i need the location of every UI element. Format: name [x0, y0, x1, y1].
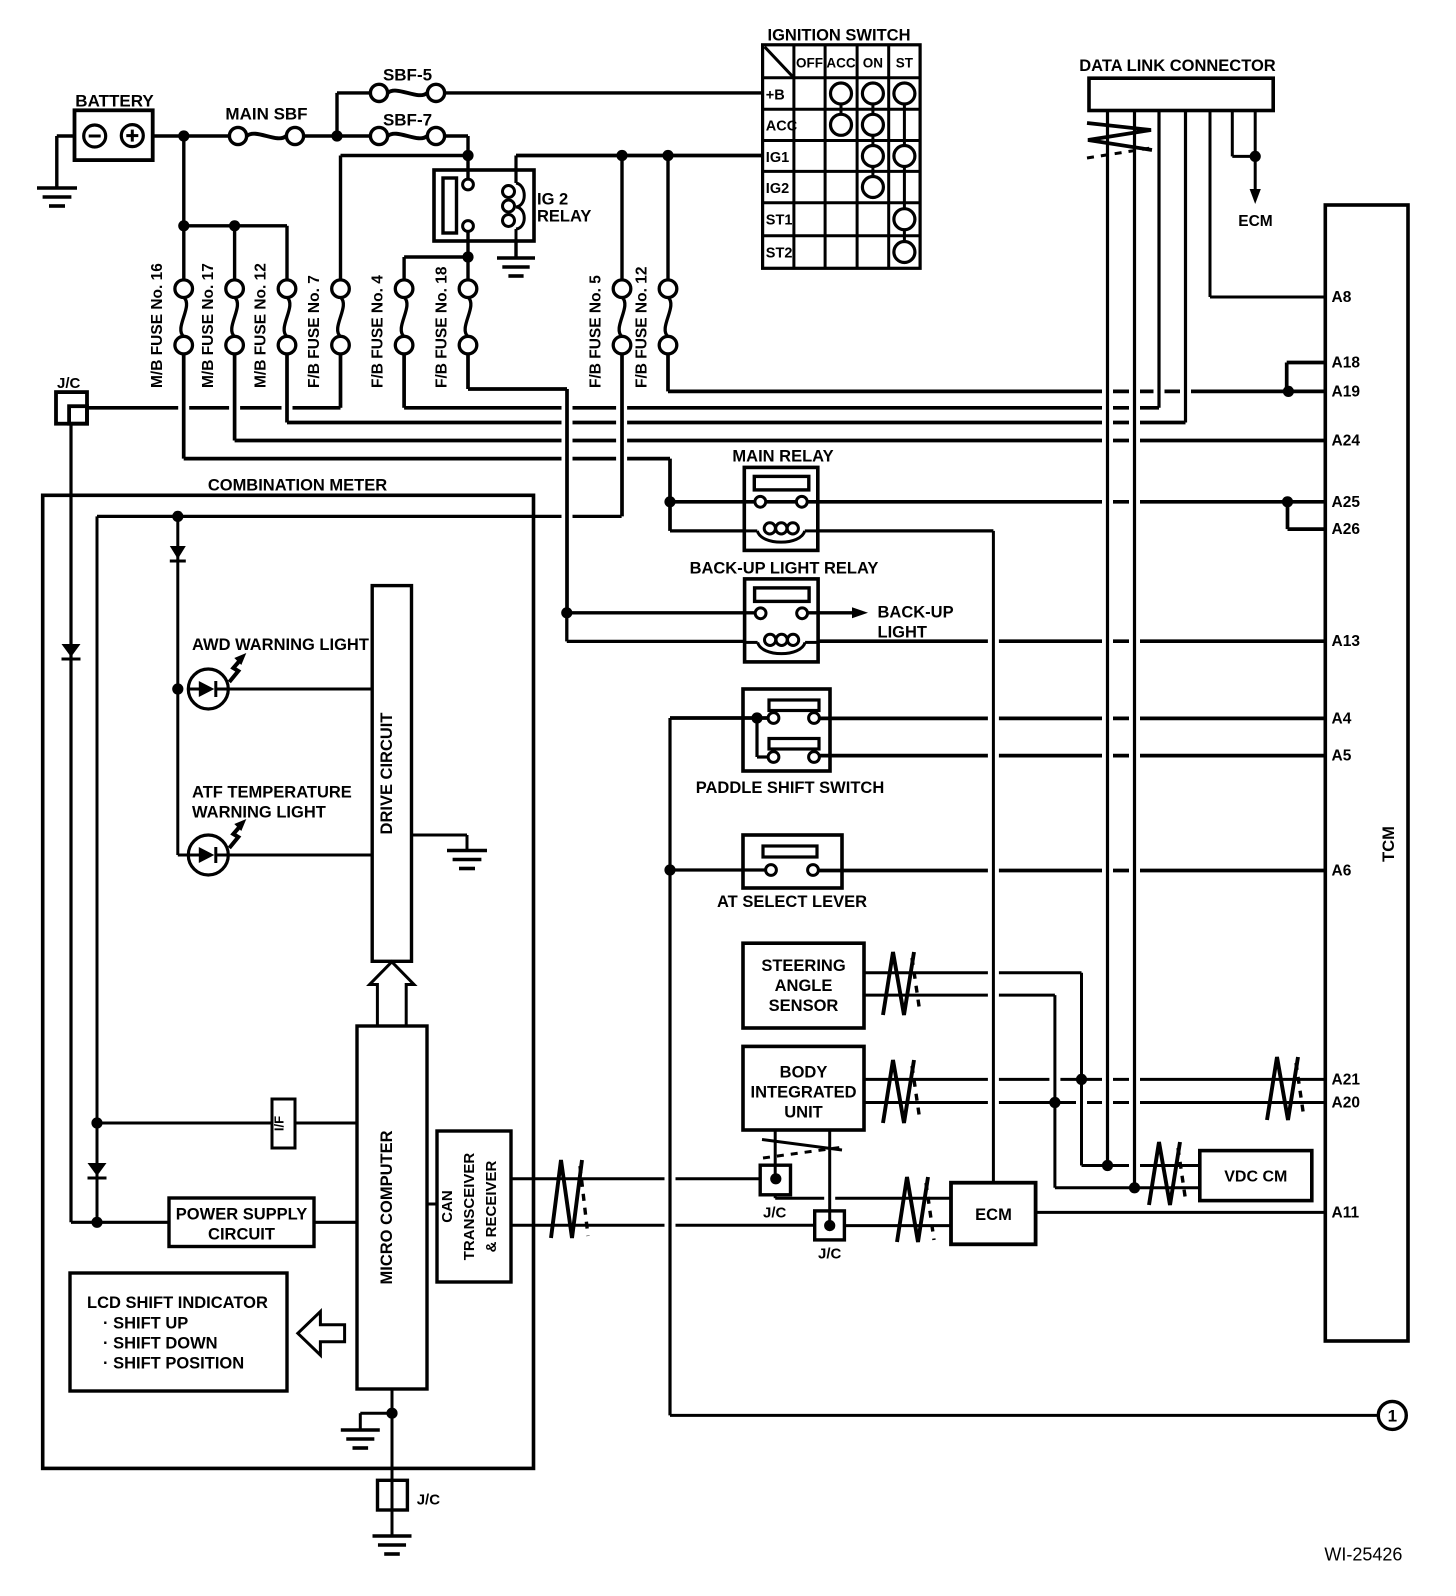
svg-text:& RECEIVER: & RECEIVER — [483, 1160, 500, 1252]
svg-text:LIGHT: LIGHT — [878, 624, 928, 642]
svg-text:A5: A5 — [1332, 748, 1352, 765]
svg-text:ACC: ACC — [826, 56, 855, 71]
svg-text:INTEGRATED: INTEGRATED — [750, 1084, 856, 1102]
svg-text:+B: +B — [766, 88, 785, 104]
svg-text:A11: A11 — [1332, 1204, 1360, 1221]
svg-text:ST2: ST2 — [766, 246, 793, 262]
svg-text:M/B FUSE No. 16: M/B FUSE No. 16 — [149, 263, 166, 388]
svg-text:F/B FUSE No. 5: F/B FUSE No. 5 — [588, 275, 605, 388]
svg-text:MAIN SBF: MAIN SBF — [225, 105, 307, 124]
svg-text:A6: A6 — [1332, 863, 1352, 880]
svg-text:TCM: TCM — [1380, 826, 1398, 862]
svg-text:A25: A25 — [1332, 494, 1361, 511]
svg-text:UNIT: UNIT — [784, 1104, 823, 1122]
svg-text:SBF-5: SBF-5 — [383, 66, 432, 85]
svg-text:RELAY: RELAY — [537, 208, 591, 226]
svg-text:ANGLE: ANGLE — [775, 977, 833, 995]
svg-text:ECM: ECM — [975, 1206, 1012, 1224]
svg-text:CIRCUIT: CIRCUIT — [208, 1226, 275, 1244]
svg-text:J/C: J/C — [763, 1205, 787, 1222]
svg-text:ON: ON — [863, 56, 883, 71]
svg-text:A18: A18 — [1332, 355, 1361, 372]
svg-text:A20: A20 — [1332, 1095, 1360, 1112]
svg-text:· SHIFT POSITION: · SHIFT POSITION — [103, 1355, 244, 1373]
svg-text:F/B FUSE No. 18: F/B FUSE No. 18 — [434, 266, 451, 388]
svg-text:ACC: ACC — [766, 119, 798, 135]
svg-text:IG2: IG2 — [766, 181, 789, 197]
svg-text:ECM: ECM — [1238, 213, 1272, 230]
svg-text:LCD SHIFT INDICATOR: LCD SHIFT INDICATOR — [87, 1294, 268, 1312]
svg-text:BODY: BODY — [780, 1064, 828, 1082]
svg-text:M/B FUSE No. 17: M/B FUSE No. 17 — [200, 263, 217, 388]
svg-text:VDC CM: VDC CM — [1224, 1168, 1287, 1185]
svg-text:CAN: CAN — [439, 1190, 456, 1223]
svg-text:IG1: IG1 — [766, 150, 789, 166]
svg-text:OFF: OFF — [796, 56, 823, 71]
svg-text:A8: A8 — [1332, 289, 1352, 306]
svg-text:TRANSCEIVER: TRANSCEIVER — [461, 1153, 478, 1261]
svg-text:F/B FUSE No. 4: F/B FUSE No. 4 — [370, 275, 387, 388]
svg-text:MAIN RELAY: MAIN RELAY — [732, 448, 833, 466]
svg-text:A24: A24 — [1332, 433, 1361, 450]
svg-text:DRIVE CIRCUIT: DRIVE CIRCUIT — [378, 713, 396, 835]
svg-text:AWD WARNING LIGHT: AWD WARNING LIGHT — [192, 636, 369, 654]
svg-text:SENSOR: SENSOR — [769, 997, 839, 1015]
svg-text:POWER SUPPLY: POWER SUPPLY — [176, 1206, 307, 1224]
svg-text:A4: A4 — [1332, 710, 1352, 727]
svg-text:A13: A13 — [1332, 633, 1361, 650]
svg-text:DATA LINK CONNECTOR: DATA LINK CONNECTOR — [1079, 57, 1276, 75]
svg-text:A26: A26 — [1332, 521, 1361, 538]
svg-text:J/C: J/C — [57, 375, 81, 392]
svg-text:ATF TEMPERATURE: ATF TEMPERATURE — [192, 784, 352, 802]
svg-text:WI-25426: WI-25426 — [1324, 1545, 1402, 1565]
svg-text:A21: A21 — [1332, 1071, 1361, 1088]
svg-text:· SHIFT DOWN: · SHIFT DOWN — [103, 1335, 218, 1353]
svg-text:J/C: J/C — [417, 1492, 441, 1509]
svg-text:M/B FUSE No. 12: M/B FUSE No. 12 — [253, 263, 270, 388]
svg-text:AT SELECT LEVER: AT SELECT LEVER — [717, 893, 867, 911]
svg-text:IG 2: IG 2 — [537, 191, 568, 209]
svg-text:BACK-UP LIGHT RELAY: BACK-UP LIGHT RELAY — [690, 560, 879, 578]
svg-text:SBF-7: SBF-7 — [383, 111, 432, 130]
svg-text:1: 1 — [1388, 1406, 1397, 1425]
svg-text:I/F: I/F — [272, 1116, 287, 1131]
svg-text:ST1: ST1 — [766, 213, 793, 229]
svg-text:COMBINATION METER: COMBINATION METER — [208, 476, 387, 494]
svg-text:BATTERY: BATTERY — [75, 91, 154, 110]
svg-text:F/B FUSE No. 12: F/B FUSE No. 12 — [634, 267, 651, 388]
svg-text:J/C: J/C — [818, 1246, 842, 1263]
svg-text:ST: ST — [896, 56, 914, 71]
svg-text:IGNITION SWITCH: IGNITION SWITCH — [768, 26, 911, 44]
svg-text:A19: A19 — [1332, 383, 1361, 400]
svg-text:F/B FUSE No. 7: F/B FUSE No. 7 — [306, 275, 323, 388]
svg-text:BACK-UP: BACK-UP — [878, 604, 954, 622]
svg-text:MICRO COMPUTER: MICRO COMPUTER — [378, 1130, 396, 1284]
svg-text:WARNING LIGHT: WARNING LIGHT — [192, 804, 326, 822]
svg-text:· SHIFT UP: · SHIFT UP — [103, 1315, 188, 1333]
svg-text:STEERING: STEERING — [761, 957, 845, 975]
svg-text:PADDLE SHIFT SWITCH: PADDLE SHIFT SWITCH — [696, 779, 885, 797]
